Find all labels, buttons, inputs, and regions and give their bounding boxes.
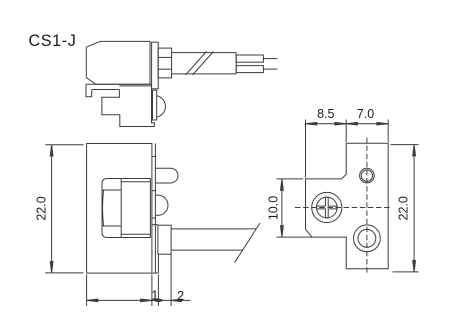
dim 7.0: arrow right [377,122,388,125]
led dome front [156,195,168,215]
plate tick 1 [152,156,156,158]
wire 1 conductor [263,58,277,60]
svg-text:22.0: 22.0 [35,196,49,220]
big hole outer [354,225,381,252]
bracket top edge right part [119,85,151,87]
dim 7.0: arrow left [346,122,357,125]
dim width bottom: extension b [151,275,153,307]
front cable bottom [171,249,243,251]
dim 10.0: extension bottom [277,236,312,238]
capsule cylinder arc [103,190,104,226]
front cable top [171,228,256,230]
led housing strip [153,90,157,120]
reed capsule outline [102,179,150,238]
dim width: line [87,299,172,301]
dim 22.0 right: extension bottom [393,271,419,273]
dim 2: tail [182,299,191,301]
big hole inner [358,229,376,247]
dim 22.0 left: extension top [45,144,83,146]
gland lower edge line [157,254,159,273]
dim width: arrow right [141,299,152,302]
dim width: arrow left [87,299,98,302]
front body rectangle [87,144,152,274]
dim 22.0 left: extension bottom [45,272,83,274]
rear plate outline [306,143,389,269]
dim 22.0 left: arrow up [50,145,53,156]
plate tick 2 [152,190,156,192]
dim 22.0 right: arrow down [413,261,416,272]
bracket hook [86,84,92,97]
cable end cap [235,53,237,74]
bracket top edge [86,83,152,85]
dim 8.5: arrow left [306,122,317,125]
bottom edge extension to plate [152,272,159,274]
plate tick 3 [152,217,156,219]
dim 10.0: arrow up [281,179,284,190]
dim 8.5/7.0: extension right [387,120,389,143]
small hole inner [361,170,372,181]
dim 22.0 right: arrow up [413,145,416,156]
wire 2 insulation [236,66,263,73]
dim 8.5/7.0: dimension line [306,123,389,125]
horizontal centerline [295,207,392,209]
dim 10.0: arrow down [281,226,284,237]
capsule nut divider [120,179,122,238]
dim 8.5: arrow right [335,122,346,125]
capsule facet lower [102,225,121,227]
nut facet line lower [158,68,171,70]
svg-text:7.0: 7.0 [357,107,374,121]
cable gland nut [158,48,171,78]
probe tab (stadium) [155,168,178,183]
vertical centerline [366,138,368,275]
plate tick 4 [152,224,158,226]
cable top edge [172,52,237,54]
capsule sleeve bottom [121,233,150,235]
bracket stepped outline [102,84,154,126]
mounting plate edge line [154,144,156,274]
capsule facet upper [102,189,121,191]
dim 2: arrow [171,299,181,302]
svg-text:10.0: 10.0 [267,196,281,220]
led dome lens [157,96,166,117]
svg-text:2: 2 [177,289,184,303]
svg-text:22.0: 22.0 [397,196,411,220]
dim 22.0 right: extension top [391,144,419,146]
dim 22.0 left: arrow down [50,262,53,273]
screw head circle [316,197,337,218]
dim 1 extension [157,275,159,307]
dim 2 extension [170,254,172,306]
bracket inner edge [92,89,120,91]
cable break slash 2 [193,52,214,76]
svg-text:8.5: 8.5 [317,107,334,121]
dim 8.5/7.0: extension left [305,120,307,178]
phillips cross [317,197,338,218]
screw outer circle [312,192,342,222]
svg-text:1: 1 [151,288,158,302]
front cable break slash [235,223,261,263]
dim 22.0 right: dimension line [413,145,415,271]
wire 2 conductor [263,68,277,70]
cable gland front [158,225,171,254]
dim 8.5/7.0: extension mid [345,120,347,143]
wire 1 insulation [236,55,263,62]
dim width bottom: extension a [86,275,88,307]
sensor body outline [86,41,150,84]
cable break slash 1 [186,52,207,76]
small hole outer [360,168,375,183]
dim 22.0 left: dimension line [51,146,53,273]
svg-text:CS1-J: CS1-J [29,32,77,50]
cable bottom edge [172,73,237,75]
body end flange [152,42,159,89]
dim 10.0: dimension line [281,180,283,237]
dim 10.0: extension top [277,178,304,180]
nut facet line upper [158,56,171,58]
capsule sleeve top [121,181,150,183]
dim 1: diamond mark [153,299,163,302]
